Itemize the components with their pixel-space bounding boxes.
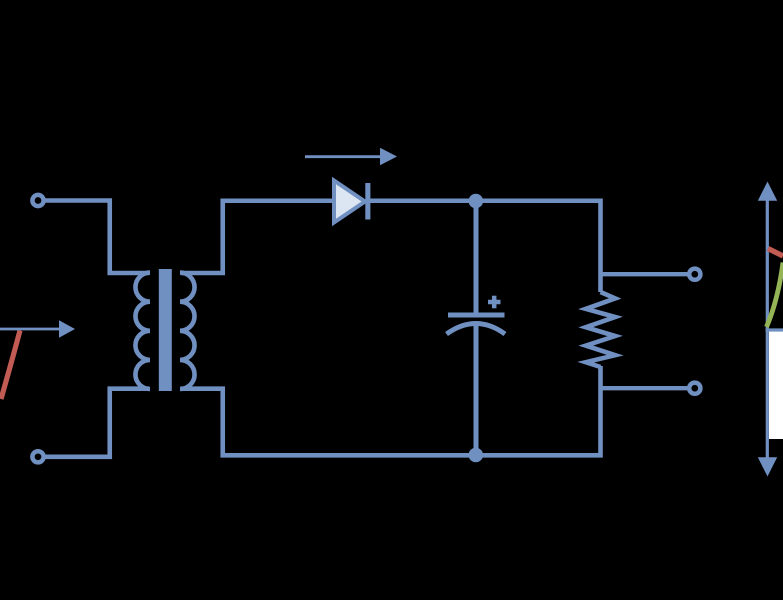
terminal output bottom (689, 383, 700, 394)
capacitor C1 bottom plate (curved) (447, 324, 506, 335)
wire: top-left terminal to primary top (46, 201, 150, 274)
diode D1 cathode bar (365, 183, 370, 220)
input waveform (red sine tail, left edge) (1, 331, 20, 400)
transformer T1 core (159, 269, 172, 391)
output green rectified wave (767, 263, 783, 328)
terminal bottom-left (32, 451, 43, 462)
capacitor C1 top plate (448, 313, 505, 318)
wire: output tap top (601, 272, 689, 276)
transformer T1 secondary winding (180, 273, 195, 389)
node B junction dot (469, 448, 484, 463)
wire: diode cathode to node A (370, 198, 476, 203)
wire: ground bus node B to resistor bottom corner (476, 366, 601, 455)
terminal output top (689, 269, 700, 280)
output plot area (white, right edge) (769, 331, 783, 439)
wire: output tap bottom (601, 386, 689, 390)
output chart y-axis shaft (766, 198, 769, 459)
resistor R1 zigzag (586, 292, 615, 367)
input arrow (0, 320, 75, 337)
output chart y-axis arrowhead bottom (758, 457, 777, 476)
capacitor C1 bottom lead (474, 324, 479, 455)
diode D1 triangle (334, 181, 365, 223)
node A junction dot (469, 194, 484, 209)
wire: secondary top to diode anode (181, 201, 335, 273)
output red sine fragment (768, 249, 783, 257)
wire: primary bottom to bottom-left terminal (46, 389, 150, 457)
capacitor C1 top lead (474, 201, 479, 315)
output chart x-axis (766, 328, 783, 331)
current flow arrow (305, 148, 397, 165)
wire: node A to resistor top corner (476, 201, 601, 292)
terminal top-left (32, 195, 43, 206)
wire: secondary bottom to ground bus (181, 389, 479, 456)
transformer T1 primary winding (135, 273, 150, 389)
capacitor C1 plus sign (488, 296, 501, 309)
output chart y-axis arrowhead top (758, 182, 777, 201)
